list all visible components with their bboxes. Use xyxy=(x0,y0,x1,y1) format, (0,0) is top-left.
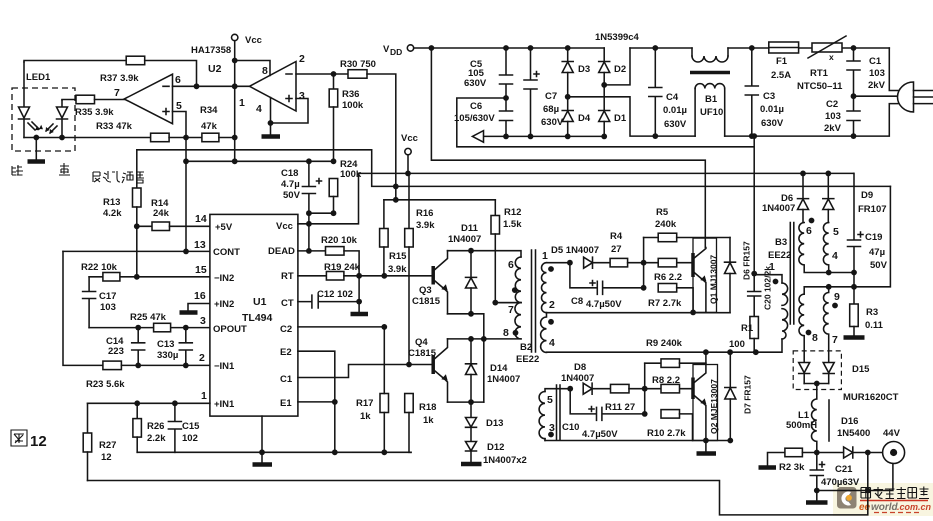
svg-text:47k: 47k xyxy=(201,121,218,132)
svg-text:FR107: FR107 xyxy=(858,204,887,215)
transistor Q3 C1815 xyxy=(412,251,448,314)
svg-text:R3: R3 xyxy=(866,307,878,318)
svg-text:V: V xyxy=(383,44,390,55)
svg-text:U1: U1 xyxy=(253,296,267,308)
svg-text:7: 7 xyxy=(508,304,514,316)
resistor R20 xyxy=(321,235,359,276)
svg-text:500mH: 500mH xyxy=(786,420,817,431)
capacitor C20 xyxy=(748,266,773,317)
capacitor C2 xyxy=(824,96,860,136)
svg-text:R23 5.6k: R23 5.6k xyxy=(86,379,125,390)
svg-text:8: 8 xyxy=(812,332,818,344)
wire minus rail with arrow xyxy=(472,131,604,143)
svg-text:5: 5 xyxy=(176,100,182,112)
svg-text:3.9k: 3.9k xyxy=(388,264,407,275)
diode D2 xyxy=(599,48,626,85)
svg-text:103: 103 xyxy=(869,68,885,79)
wire C2 pin xyxy=(298,326,384,328)
resistor R9 (240k collector-base) xyxy=(645,359,706,368)
wire DEAD pin xyxy=(298,250,326,252)
diode D13 xyxy=(466,402,504,441)
svg-text:R22 10k: R22 10k xyxy=(81,262,118,273)
resistor R23 xyxy=(86,361,210,390)
svg-text:+IN2: +IN2 xyxy=(214,299,234,310)
wire neutral rail xyxy=(655,104,904,137)
svg-text:D1: D1 xyxy=(614,113,627,124)
svg-text:D15: D15 xyxy=(852,364,870,375)
ground + resistor R2 xyxy=(759,448,817,473)
svg-text:4: 4 xyxy=(832,250,838,262)
capacitor C10 (electrolytic) xyxy=(562,389,645,440)
B2 primary winding 2-4 xyxy=(541,313,555,353)
svg-text:C1815: C1815 xyxy=(408,348,437,359)
svg-text:R7 2.7k: R7 2.7k xyxy=(648,298,682,309)
wire B2 pin2 / Q1 emitter line xyxy=(547,312,731,314)
svg-text:R19 24k: R19 24k xyxy=(324,262,361,273)
resistor R14 xyxy=(137,198,210,231)
wire pin4 + pin3 to ground xyxy=(271,98,309,136)
ground D12 xyxy=(461,462,482,467)
wire R5 node vertical xyxy=(643,238,645,288)
choke B1 top winding xyxy=(690,48,730,73)
diode D14 xyxy=(466,339,521,402)
svg-text:2kV: 2kV xyxy=(868,80,886,91)
capacitor C4 xyxy=(649,48,687,136)
svg-text:102: 102 xyxy=(182,433,198,444)
wire R13 bottom to -IN2 xyxy=(136,226,138,276)
ground U2 xyxy=(262,134,281,139)
svg-text:R10 2.7k: R10 2.7k xyxy=(647,428,686,439)
resistor R15 xyxy=(380,200,408,276)
wire vert 186 down to pin13 xyxy=(185,138,187,252)
svg-text:R18: R18 xyxy=(419,402,436,413)
resistor R8 xyxy=(652,375,680,393)
svg-text:1N4007: 1N4007 xyxy=(487,374,520,385)
IC U1 TL494 xyxy=(210,214,298,416)
svg-text:4.7µ50V: 4.7µ50V xyxy=(586,299,622,310)
terminal Vcc mid xyxy=(401,133,418,173)
choke B1 bottom winding xyxy=(695,84,725,137)
svg-text:470µ63V: 470µ63V xyxy=(821,477,860,488)
svg-text:R8 2.2: R8 2.2 xyxy=(652,375,680,386)
B3 secondary winding 8 (left) xyxy=(799,294,818,361)
svg-text:world: world xyxy=(871,502,899,513)
svg-text:6: 6 xyxy=(806,225,812,237)
diode D7 FR157 xyxy=(725,352,753,440)
wire AC feed D3/D4 mid xyxy=(568,97,656,136)
wire pin6 net xyxy=(173,85,250,87)
svg-text:C3: C3 xyxy=(763,91,775,102)
capacitor C1 xyxy=(847,48,886,96)
resistor R35 xyxy=(62,95,124,118)
LED1 dashed box xyxy=(12,72,75,151)
svg-text:27: 27 xyxy=(611,244,622,255)
fuse F1 xyxy=(769,42,799,81)
svg-text:D16: D16 xyxy=(841,416,858,427)
svg-text:DEAD: DEAD xyxy=(268,246,295,257)
capacitor C8 (electrolytic) xyxy=(570,263,644,310)
diode D1 xyxy=(599,85,627,136)
svg-text:U2: U2 xyxy=(208,63,222,75)
svg-text:1: 1 xyxy=(542,250,548,262)
capacitor C6 xyxy=(454,98,513,136)
svg-text:7: 7 xyxy=(832,334,838,346)
svg-text:HA17358: HA17358 xyxy=(191,45,231,56)
label fig12 (tu 12) xyxy=(11,430,47,450)
svg-text:630V: 630V xyxy=(541,117,564,128)
svg-text:C2: C2 xyxy=(826,99,838,110)
svg-text:D5 1N4007: D5 1N4007 xyxy=(551,245,599,256)
svg-text:D8: D8 xyxy=(574,362,586,373)
svg-text:1: 1 xyxy=(239,97,245,109)
svg-text:4: 4 xyxy=(256,103,262,115)
resistor R30 xyxy=(340,59,376,78)
svg-text:EE22: EE22 xyxy=(768,250,791,261)
svg-text:630V: 630V xyxy=(761,118,784,129)
resistor R34 xyxy=(200,105,219,142)
wire Q4 emitter line xyxy=(448,401,484,403)
svg-text:C2: C2 xyxy=(280,324,292,335)
wire pin2 to R30 xyxy=(296,73,348,75)
resistor R1 xyxy=(729,317,758,353)
svg-text:D3: D3 xyxy=(578,64,590,75)
svg-text:50V: 50V xyxy=(870,260,888,271)
svg-text:C10: C10 xyxy=(562,422,579,433)
diode D3 xyxy=(562,48,590,97)
svg-text:1.5k: 1.5k xyxy=(503,219,522,230)
wire y150 net xyxy=(137,150,891,187)
svg-text:R11 27: R11 27 xyxy=(605,402,635,413)
op-amp U2A (points left) xyxy=(239,53,305,115)
svg-text:TL494: TL494 xyxy=(242,312,273,324)
wire pin8 xyxy=(235,61,270,76)
svg-text:D13: D13 xyxy=(486,418,503,429)
svg-text:ee: ee xyxy=(859,502,871,513)
svg-text:D6 FR157: D6 FR157 xyxy=(742,241,752,280)
svg-text:D9: D9 xyxy=(861,190,873,201)
resistor R27 xyxy=(83,403,116,480)
svg-text:R1: R1 xyxy=(741,323,754,334)
LED yellow (right) xyxy=(46,100,68,138)
svg-text:OPOUT: OPOUT xyxy=(213,324,247,335)
wire pin1 +IN1 xyxy=(88,402,210,404)
wire output return xyxy=(817,464,893,491)
svg-text:105/630V: 105/630V xyxy=(454,113,495,124)
svg-text:2: 2 xyxy=(299,53,305,65)
svg-text:R25 47k: R25 47k xyxy=(130,312,167,323)
svg-text:630V: 630V xyxy=(464,78,487,89)
wire R30 right drop xyxy=(367,74,396,186)
svg-text:0.01µ: 0.01µ xyxy=(760,104,784,115)
svg-text:R2 3k: R2 3k xyxy=(779,462,805,473)
svg-text:F1: F1 xyxy=(776,56,788,67)
svg-text:0.11: 0.11 xyxy=(865,320,884,331)
resistor R11 xyxy=(605,384,693,413)
svg-text:D4: D4 xyxy=(578,113,591,124)
svg-text:C17: C17 xyxy=(99,291,116,302)
capacitor C7 (electrolytic) xyxy=(524,48,564,136)
svg-text:E2: E2 xyxy=(280,347,292,358)
op-amp U2B (points left) xyxy=(114,74,182,124)
resistor R26 xyxy=(133,403,166,452)
resistor R12 xyxy=(491,200,522,303)
svg-text:D7 FR157: D7 FR157 xyxy=(743,375,753,414)
svg-text:.com.cn: .com.cn xyxy=(897,502,932,512)
svg-text:EE22: EE22 xyxy=(516,354,539,365)
B3 secondary winding 9-7 (right) xyxy=(823,287,840,362)
capacitor C3 xyxy=(745,48,784,136)
B2 core xyxy=(532,250,536,352)
svg-text:16: 16 xyxy=(194,290,206,302)
svg-text:E1: E1 xyxy=(280,398,292,409)
svg-text:Q2 MJE13007: Q2 MJE13007 xyxy=(709,379,719,434)
svg-text:C15: C15 xyxy=(182,421,200,432)
svg-text:13: 13 xyxy=(194,239,206,251)
wire Q3 emitter line xyxy=(448,314,484,402)
wire bottom rail under IC xyxy=(137,451,411,453)
svg-text:Q3: Q3 xyxy=(419,285,432,296)
svg-text:LED1: LED1 xyxy=(26,72,51,83)
wire plug feeds xyxy=(854,48,905,96)
svg-text:R4: R4 xyxy=(610,231,623,242)
svg-text:8: 8 xyxy=(503,327,509,339)
svg-text:+5V: +5V xyxy=(215,222,233,233)
svg-text:8: 8 xyxy=(262,65,268,77)
wire Q4 collector / B2 pin8 line xyxy=(448,338,522,340)
svg-text:2.5A: 2.5A xyxy=(771,70,791,81)
svg-text:D12: D12 xyxy=(487,442,504,453)
svg-text:103: 103 xyxy=(100,302,116,313)
wire net y161 xyxy=(186,160,334,162)
transistor Q2 MJE13007 (boxed) xyxy=(693,352,719,440)
wire C5/C6 midpoint loop to primary return xyxy=(457,98,754,274)
resistor R37 xyxy=(24,56,197,86)
wire E2 pin xyxy=(298,351,335,402)
wire pin5 to R33/R34 node xyxy=(173,112,187,138)
resistor R24 xyxy=(329,159,362,213)
wire VDD drop to B+ rail xyxy=(431,48,705,248)
resistor R18 xyxy=(405,394,437,453)
wire R9 node vertical xyxy=(644,363,646,414)
svg-text:5: 5 xyxy=(547,394,553,406)
capacitor C19 (electrolytic) xyxy=(848,173,888,286)
svg-text:UF10: UF10 xyxy=(700,107,723,118)
wire B2 pin4 / Q1-Q2 collector line xyxy=(547,275,783,353)
svg-text:1k: 1k xyxy=(423,415,434,426)
svg-text:1N4007: 1N4007 xyxy=(762,203,795,214)
diode D8 xyxy=(561,362,611,394)
svg-text:1: 1 xyxy=(769,261,775,273)
transistor Q4 C1815 xyxy=(408,337,448,402)
svg-text:100k: 100k xyxy=(342,100,364,111)
svg-text:3: 3 xyxy=(299,90,305,102)
svg-text:7: 7 xyxy=(114,87,120,99)
B3 aux winding 5 xyxy=(823,223,839,273)
svg-text:1N4007: 1N4007 xyxy=(448,234,481,245)
svg-text:C19: C19 xyxy=(865,232,882,243)
wire C1 pin xyxy=(298,365,433,378)
svg-text:DD: DD xyxy=(390,47,402,57)
svg-text:R27: R27 xyxy=(99,440,116,451)
svg-text:B3: B3 xyxy=(775,237,787,248)
terminal 44V xyxy=(883,428,905,464)
wire LED cathode rail xyxy=(24,137,151,139)
svg-text:R6 2.2: R6 2.2 xyxy=(654,272,682,283)
wire R15/R12 top link xyxy=(384,186,495,199)
svg-text:C8: C8 xyxy=(571,296,583,307)
svg-text:Q4: Q4 xyxy=(415,337,428,348)
svg-text:R13: R13 xyxy=(103,197,120,208)
svg-text:C1815: C1815 xyxy=(412,296,441,307)
svg-text:44V: 44V xyxy=(883,428,901,439)
ground LED xyxy=(28,138,46,162)
label xianliu tiaozheng (current limit adjust) xyxy=(93,171,144,183)
wire xyxy=(169,137,202,139)
resistor R25 xyxy=(130,312,171,332)
svg-text:2.2k: 2.2k xyxy=(147,433,166,444)
wire Q2 ground line xyxy=(545,440,730,442)
svg-text:6: 6 xyxy=(508,259,514,271)
svg-text:D11: D11 xyxy=(461,223,479,234)
svg-text:C12 102: C12 102 xyxy=(317,289,353,300)
svg-text:R17: R17 xyxy=(356,398,373,409)
wire pin15 -IN2 xyxy=(89,276,210,278)
diode D5 xyxy=(551,245,610,268)
svg-text:2: 2 xyxy=(199,352,205,364)
svg-text:R12: R12 xyxy=(504,207,521,218)
svg-text:R5: R5 xyxy=(656,207,669,218)
svg-text:R34: R34 xyxy=(200,105,218,116)
wire xyxy=(219,137,235,139)
diode D11 xyxy=(448,223,481,314)
svg-text:2: 2 xyxy=(549,299,555,311)
svg-text:CONT: CONT xyxy=(213,247,240,258)
label red (hanzi) xyxy=(12,165,23,175)
resistor R13 xyxy=(103,150,141,227)
wire pin1 to D5 xyxy=(547,262,570,264)
svg-text:Vcc: Vcc xyxy=(401,133,418,144)
svg-text:RT1: RT1 xyxy=(810,68,829,79)
svg-text:R33 47k: R33 47k xyxy=(96,121,133,132)
svg-text:R30 750: R30 750 xyxy=(340,59,376,70)
node dots LED line xyxy=(33,135,39,141)
svg-text:3: 3 xyxy=(200,315,206,327)
svg-text:C21: C21 xyxy=(835,464,853,475)
svg-text:2kV: 2kV xyxy=(824,123,842,134)
svg-text:103: 103 xyxy=(825,111,841,122)
svg-text:14: 14 xyxy=(195,213,207,225)
svg-text:R16: R16 xyxy=(416,208,433,219)
capacitor C5 xyxy=(464,48,513,98)
wire main bottom rail xyxy=(88,453,868,515)
svg-text:B2: B2 xyxy=(520,342,532,353)
svg-text:100: 100 xyxy=(729,339,745,350)
capacitor C15 xyxy=(168,403,200,452)
svg-text:15: 15 xyxy=(195,264,207,276)
resistor R3 xyxy=(850,287,884,336)
diode aux right (1N4007) xyxy=(823,171,834,223)
capacitor C13 xyxy=(157,328,192,366)
transistor Q1 MJ13007 (boxed) xyxy=(693,238,719,312)
wire pin3 OPOUT xyxy=(89,327,210,329)
ground C21 xyxy=(806,491,828,503)
svg-text:4.2k: 4.2k xyxy=(103,208,122,219)
svg-text:4.7µ: 4.7µ xyxy=(281,179,300,190)
svg-text:Vcc: Vcc xyxy=(245,35,262,46)
svg-text:4.7µ50V: 4.7µ50V xyxy=(582,429,618,440)
svg-text:+IN1: +IN1 xyxy=(214,399,235,410)
svg-text:R35 3.9k: R35 3.9k xyxy=(75,107,114,118)
svg-text:R26: R26 xyxy=(147,421,164,432)
svg-text:NTC50–11: NTC50–11 xyxy=(797,81,843,92)
svg-text:C4: C4 xyxy=(666,92,679,103)
ground Q2 xyxy=(697,441,717,454)
svg-text:R20 10k: R20 10k xyxy=(321,235,358,246)
resistor R33 xyxy=(96,121,169,142)
svg-text:50V: 50V xyxy=(283,190,301,201)
capacitor C14 xyxy=(106,328,145,366)
svg-text:R36: R36 xyxy=(342,89,359,100)
svg-text:68µ: 68µ xyxy=(543,104,559,115)
svg-text:24k: 24k xyxy=(153,208,170,219)
wire net Vcc rail y173 xyxy=(359,172,854,174)
wire winding bottoms to C19 xyxy=(829,272,854,274)
wire AC feed D2/D1 mid xyxy=(604,48,630,85)
inductor L1 xyxy=(786,384,829,453)
svg-text:47µ: 47µ xyxy=(869,247,885,258)
resistor R17 xyxy=(356,327,389,452)
resistor R7 xyxy=(648,284,693,313)
resistor R22 xyxy=(81,262,120,281)
LED red (left) xyxy=(19,62,44,138)
svg-text:RT: RT xyxy=(281,271,294,282)
svg-text:D14: D14 xyxy=(490,363,508,374)
resistor R6 xyxy=(654,258,682,283)
svg-text:5: 5 xyxy=(833,226,839,238)
svg-text:9: 9 xyxy=(834,291,840,303)
svg-text:C7: C7 xyxy=(545,91,557,102)
svg-text:Q1 MJ13007: Q1 MJ13007 xyxy=(709,255,719,304)
terminal Vcc top xyxy=(232,34,262,161)
diode D4 xyxy=(562,97,591,137)
svg-text:C13: C13 xyxy=(157,339,174,350)
diode D6 (1N4007, left aux) xyxy=(762,171,809,223)
svg-text:1N5399c4: 1N5399c4 xyxy=(595,32,640,43)
diode D6 FR157 xyxy=(725,238,752,313)
ground R19/C12 xyxy=(351,312,369,317)
B3 aux winding 6 xyxy=(799,218,838,273)
svg-text:C1: C1 xyxy=(280,374,293,385)
terminal VDD xyxy=(383,44,604,57)
wire left loop vertical xyxy=(63,251,103,365)
wire CT pin / capacitor C12 xyxy=(298,289,359,308)
svg-text:4: 4 xyxy=(549,337,555,349)
diode D16 xyxy=(817,416,883,458)
svg-text:1: 1 xyxy=(201,390,207,402)
svg-text:6: 6 xyxy=(175,74,181,86)
wire C18/R24 bottoms xyxy=(309,213,334,251)
svg-text:R15: R15 xyxy=(389,251,407,262)
wire pin13 CONT xyxy=(63,250,210,252)
label yellow (hanzi) xyxy=(59,163,70,175)
svg-text:C1: C1 xyxy=(869,56,882,67)
dual diode D15 MUR1620CT (dashed box) xyxy=(793,351,898,403)
svg-text:x: x xyxy=(829,52,834,62)
wire Vcc pin to Vcc net xyxy=(298,173,359,223)
ground U1 xyxy=(253,416,273,464)
wire pin16 +IN2 / ground xyxy=(180,304,210,313)
svg-text:CT: CT xyxy=(281,298,294,309)
